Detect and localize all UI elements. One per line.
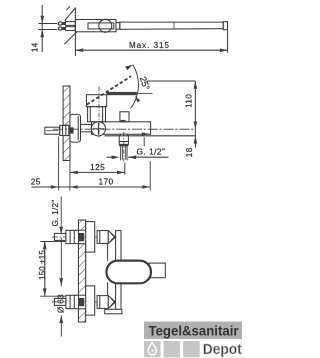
bottom cartridge line bbox=[99, 296, 101, 309]
neck inner lines bbox=[89, 107, 91, 122]
svg-text:G. 1/2": G. 1/2" bbox=[51, 200, 60, 227]
25 arrow right tip at A bbox=[51, 185, 59, 189]
valve cross horizontal bbox=[93, 128, 105, 130]
G12 underline bbox=[128, 156, 168, 158]
dimension 14 arrow down bbox=[40, 16, 44, 24]
valve cross vertical bbox=[97, 123, 99, 135]
wall hatch stroke upper bbox=[65, 8, 76, 21]
ext line D body end lower bbox=[149, 161, 151, 190]
svg-text:110: 110 bbox=[185, 94, 194, 108]
supply stub upper rect bbox=[66, 22, 76, 26]
bottom nut inner lines bbox=[69, 295, 71, 308]
cartridge neck bbox=[88, 107, 106, 122]
supply stub lower dark bbox=[58, 27, 66, 30]
faucet body vertical bar bbox=[116, 231, 121, 310]
110 arrow up bbox=[194, 81, 198, 89]
supply stub lower rect bbox=[66, 27, 76, 31]
body left connector line lower bbox=[107, 282, 109, 295]
svg-text:Ø 63: Ø 63 bbox=[56, 294, 65, 313]
150 tick top bbox=[40, 241, 65, 243]
125 right arrow bbox=[117, 171, 125, 175]
svg-text:Max. 315: Max. 315 bbox=[129, 41, 170, 50]
supply stub upper dark bbox=[58, 22, 66, 25]
escutcheon plate bbox=[70, 114, 81, 142]
top cartridge line bbox=[99, 231, 101, 244]
faucet body (middle view) bbox=[92, 122, 151, 135]
G12 leader left line bbox=[107, 156, 113, 158]
wall hatch tick top bbox=[66, 6, 70, 10]
bottom dark square bbox=[79, 299, 84, 306]
body bar bottom cap bbox=[105, 309, 122, 314]
top cone inner bbox=[110, 233, 114, 242]
G12 down arrow bbox=[59, 227, 63, 235]
top nut inner lines bbox=[69, 230, 71, 243]
G12 leader vertical bbox=[143, 137, 145, 146]
connector pipe bbox=[81, 124, 93, 131]
G12 underline vertical bbox=[60, 197, 62, 228]
dia63 vline lower bbox=[60, 315, 62, 336]
droplet inner dot bbox=[152, 350, 154, 352]
angle arc 25 bbox=[131, 65, 139, 109]
170 left arrow bbox=[70, 185, 78, 189]
valve circle bbox=[91, 122, 105, 136]
top nut bbox=[66, 230, 79, 243]
150 arrow up bbox=[43, 242, 47, 250]
escutcheon inner line bbox=[77, 116, 79, 140]
bottom row centerline bbox=[52, 301, 104, 303]
top cone bbox=[108, 231, 115, 244]
18 arrow up from below bbox=[194, 136, 198, 144]
wall bar seg2 bbox=[78, 244, 85, 296]
droplet icon bbox=[148, 343, 156, 355]
bottom supply pipe bbox=[54, 298, 66, 305]
body left connector line upper bbox=[107, 243, 109, 260]
outlet nipple left bbox=[120, 146, 122, 160]
extension line lever top bbox=[147, 80, 196, 82]
G12 leader left arrow bbox=[112, 155, 120, 159]
wall hatch stroke lower bbox=[64, 31, 77, 44]
supply pipe midline bbox=[46, 130, 59, 132]
supply stub ring upper bbox=[59, 22, 62, 25]
bottom nut bbox=[66, 295, 79, 308]
right dim vline bbox=[194, 81, 196, 148]
wall bar seg1 bbox=[78, 220, 85, 230]
supply hex nut bbox=[60, 125, 69, 135]
18 lower ref line bbox=[105, 135, 196, 137]
arc arrow upper bbox=[125, 65, 133, 70]
svg-text:18: 18 bbox=[185, 147, 194, 157]
top supply pipe bbox=[54, 233, 66, 240]
svg-text:170: 170 bbox=[98, 177, 113, 187]
dim 150 vline bbox=[44, 242, 46, 297]
logo square 2 bbox=[164, 341, 181, 357]
outlet band bbox=[119, 142, 128, 145]
spout end cap bbox=[223, 22, 227, 30]
svg-text:Depot: Depot bbox=[203, 341, 242, 358]
logo bar bbox=[144, 322, 242, 340]
dia63 arrow down bbox=[59, 278, 63, 286]
dimension 14 ext tick lower bbox=[38, 29, 57, 31]
outlet centerline dashed bbox=[123, 132, 125, 162]
handle oval bbox=[106, 261, 151, 284]
bottom plate edge bbox=[86, 286, 95, 315]
lever handle (top view) bbox=[88, 23, 114, 29]
svg-text:125: 125 bbox=[90, 162, 105, 172]
ext line B wall face bbox=[69, 161, 71, 191]
faucet body (top view) bbox=[75, 20, 116, 32]
wall line (top view) bbox=[74, 8, 76, 57]
neck centerline dashed bbox=[98, 87, 100, 138]
supply pipe bbox=[45, 127, 60, 134]
dimension 14 ext tick upper bbox=[38, 23, 57, 25]
lever extension line bbox=[137, 93, 153, 95]
nipple thread lines bbox=[121, 146, 123, 159]
110 arrow down bbox=[194, 121, 198, 129]
dim 170/25 line bbox=[32, 186, 150, 188]
svg-text:150 ±15: 150 ±15 bbox=[38, 250, 47, 280]
spout (top view) bbox=[120, 22, 223, 29]
bottom cone bbox=[108, 296, 115, 309]
outlet dome bbox=[119, 134, 128, 141]
dimension 14 arrow up bbox=[40, 30, 44, 38]
170 right arrow bbox=[142, 185, 150, 189]
logo square 1 bbox=[144, 341, 161, 357]
150 arrow down bbox=[43, 288, 47, 296]
ext line A supply end bbox=[58, 137, 60, 191]
dim 125 line bbox=[70, 171, 125, 173]
dimension Max 315 line bbox=[75, 49, 227, 51]
spout collar bbox=[116, 23, 120, 30]
lever raised dashed bbox=[87, 76, 131, 104]
supply hex inner lines bbox=[62, 125, 64, 135]
ext line C outlet center bbox=[124, 163, 126, 175]
bottom cone inner bbox=[110, 298, 114, 307]
diverter knob dark bbox=[121, 120, 126, 122]
cartridge cap circle (top view) bbox=[99, 19, 112, 32]
bottom cartridge bbox=[97, 296, 108, 309]
svg-text:14: 14 bbox=[31, 42, 40, 52]
G12 leader right arrow bbox=[128, 155, 136, 159]
svg-text:Tegel&sanitair: Tegel&sanitair bbox=[149, 324, 239, 340]
body end arrow bbox=[142, 132, 150, 136]
supply stub ring lower bbox=[59, 27, 62, 30]
125 left arrow bbox=[70, 171, 78, 175]
svg-text:25: 25 bbox=[31, 177, 41, 187]
svg-text:25°: 25° bbox=[138, 75, 152, 91]
dia63 arrow up bbox=[59, 315, 63, 323]
dimension Max315 right arrow bbox=[220, 48, 228, 52]
lever block bbox=[86, 95, 106, 107]
centerline horizontal bbox=[53, 128, 195, 130]
outlet nipple right bbox=[126, 146, 128, 160]
svg-text:G. 1/2": G. 1/2" bbox=[137, 147, 166, 157]
spout stub bbox=[149, 263, 165, 278]
150 tick bottom bbox=[40, 295, 65, 297]
diverter knob bbox=[120, 112, 129, 122]
dimension Max315 left arrow bbox=[75, 48, 83, 52]
spout joint line bbox=[173, 22, 175, 29]
wall section upper bbox=[63, 86, 70, 125]
supply nut dark bbox=[69, 127, 74, 133]
dimension 14 line bbox=[41, 5, 43, 52]
wall section lower bbox=[63, 136, 70, 161]
top dark square bbox=[79, 234, 84, 241]
logo square 3 bbox=[183, 341, 200, 357]
spout end extension line bbox=[227, 30, 229, 53]
outlet dark band bbox=[119, 144, 128, 146]
arc arrow lower bbox=[135, 96, 140, 103]
top plate edge bbox=[86, 222, 95, 253]
top cartridge bbox=[97, 231, 108, 244]
lever bar (filled) bbox=[107, 92, 137, 95]
wall bar seg3 bbox=[78, 309, 85, 322]
top row centerline bbox=[52, 236, 104, 238]
dia63 vline upper bbox=[60, 238, 62, 287]
